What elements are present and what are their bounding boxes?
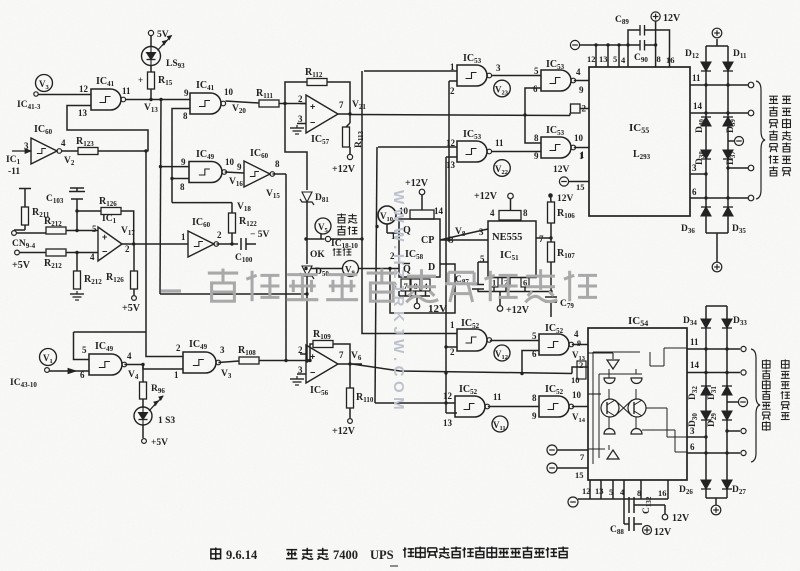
svg-text:2: 2 [450,347,455,357]
svg-text:9: 9 [577,339,581,348]
svg-text:14: 14 [693,101,703,111]
svg-text:6: 6 [532,349,537,359]
svg-text:1: 1 [492,278,496,288]
svg-text:2: 2 [298,94,303,104]
svg-text:5V: 5V [157,30,169,40]
svg-text:OK: OK [310,250,325,260]
svg-text:8: 8 [523,208,528,218]
svg-text:4: 4 [127,351,132,361]
svg-text:8: 8 [180,182,185,192]
svg-text:4: 4 [490,208,495,218]
svg-text:1: 1 [450,62,455,72]
svg-text:9: 9 [534,151,539,161]
svg-text:3: 3 [220,345,225,355]
svg-text:1: 1 [450,320,455,330]
svg-text:15: 15 [576,182,585,192]
svg-text:+: + [138,75,143,85]
svg-text:CP: CP [421,235,434,246]
svg-text:6: 6 [692,187,697,197]
svg-text:D: D [428,262,435,273]
svg-text:7: 7 [339,350,344,360]
svg-text:9: 9 [181,157,186,167]
svg-text:WWW.HZJRKJW.COM: WWW.HZJRKJW.COM [390,190,407,414]
svg-text:3: 3 [479,227,484,237]
svg-text:5: 5 [613,54,617,64]
svg-text:8: 8 [534,133,539,143]
svg-text:8: 8 [657,54,661,64]
svg-text:1: 1 [181,232,186,242]
svg-text:12V: 12V [553,165,570,175]
svg-text:7400: 7400 [333,548,358,562]
svg-text:+: + [310,101,315,111]
svg-text:12V: 12V [663,13,681,24]
svg-text:11: 11 [690,337,699,347]
svg-text:12V: 12V [672,513,690,524]
svg-text:+12V: +12V [506,305,530,316]
svg-text:11: 11 [493,392,502,402]
svg-text:−: − [310,367,315,377]
svg-text:5: 5 [82,345,87,355]
svg-text:12: 12 [79,84,89,94]
svg-text:1: 1 [580,150,585,160]
svg-text:−: − [310,117,315,127]
svg-text:14: 14 [690,360,700,370]
svg-text:2: 2 [125,244,130,254]
svg-text:2: 2 [450,86,455,96]
svg-text:12: 12 [443,391,453,401]
svg-text:7: 7 [339,100,344,110]
svg-text:4: 4 [576,67,581,77]
svg-text:10: 10 [574,133,584,143]
svg-text:10: 10 [224,87,234,97]
svg-text:UPS: UPS [370,548,394,562]
svg-text:2: 2 [217,230,222,240]
svg-text:12: 12 [587,54,596,64]
svg-text:5: 5 [609,487,613,497]
svg-text:10: 10 [572,390,582,400]
svg-text:12: 12 [582,486,591,496]
svg-text:1: 1 [174,370,179,380]
svg-text:5: 5 [92,224,97,234]
svg-text:+: + [102,232,107,242]
svg-text:+12V: +12V [332,426,356,437]
svg-text:16: 16 [666,55,675,65]
svg-text:3: 3 [298,114,303,124]
svg-text:12V: 12V [557,194,574,204]
svg-text:12V: 12V [428,303,447,315]
svg-text:− 5V: − 5V [250,230,270,240]
svg-text:9: 9 [184,88,189,98]
svg-text:13: 13 [78,108,88,118]
svg-text:4: 4 [90,252,95,262]
svg-text:NE555: NE555 [492,232,522,243]
svg-text:13: 13 [446,160,456,170]
svg-text:-11: -11 [8,167,20,177]
svg-text:4: 4 [61,138,66,148]
svg-text:6: 6 [533,84,538,94]
svg-text:10: 10 [225,157,235,167]
svg-text:9.6.14: 9.6.14 [226,548,258,562]
svg-text:1 S3: 1 S3 [158,416,175,426]
svg-text:13: 13 [443,418,453,428]
svg-text:5: 5 [534,66,539,76]
svg-text:14: 14 [434,206,444,216]
svg-text:11: 11 [692,73,701,83]
svg-text:8: 8 [183,111,188,121]
svg-text:9: 9 [579,85,584,95]
svg-text:7: 7 [539,234,544,244]
svg-text:8: 8 [532,393,537,403]
svg-text:13: 13 [599,54,608,64]
svg-text:15: 15 [575,470,584,480]
svg-text:+12V: +12V [332,164,356,175]
svg-text:10: 10 [571,375,580,385]
svg-text:5: 5 [532,331,537,341]
svg-text:6: 6 [690,442,695,452]
svg-text:11: 11 [495,138,504,148]
svg-text:16: 16 [658,488,667,498]
svg-text:6: 6 [80,370,85,380]
svg-text:3: 3 [496,63,501,73]
svg-text:2: 2 [582,104,587,114]
svg-text:4: 4 [574,329,579,339]
svg-text:2: 2 [176,343,181,353]
svg-text:−: − [102,246,107,256]
svg-text:8: 8 [637,488,641,498]
svg-text:+12V: +12V [474,191,498,202]
svg-text:11: 11 [122,86,131,96]
svg-text:+5V: +5V [151,438,168,448]
svg-text:+12V: +12V [405,178,429,189]
svg-text:13: 13 [595,486,604,496]
svg-text:9: 9 [237,162,242,172]
svg-text:9: 9 [532,411,537,421]
svg-text:+5V: +5V [122,303,141,314]
svg-text:12V: 12V [654,527,672,538]
svg-text:8: 8 [275,159,280,169]
svg-text:+5V: +5V [12,260,31,271]
